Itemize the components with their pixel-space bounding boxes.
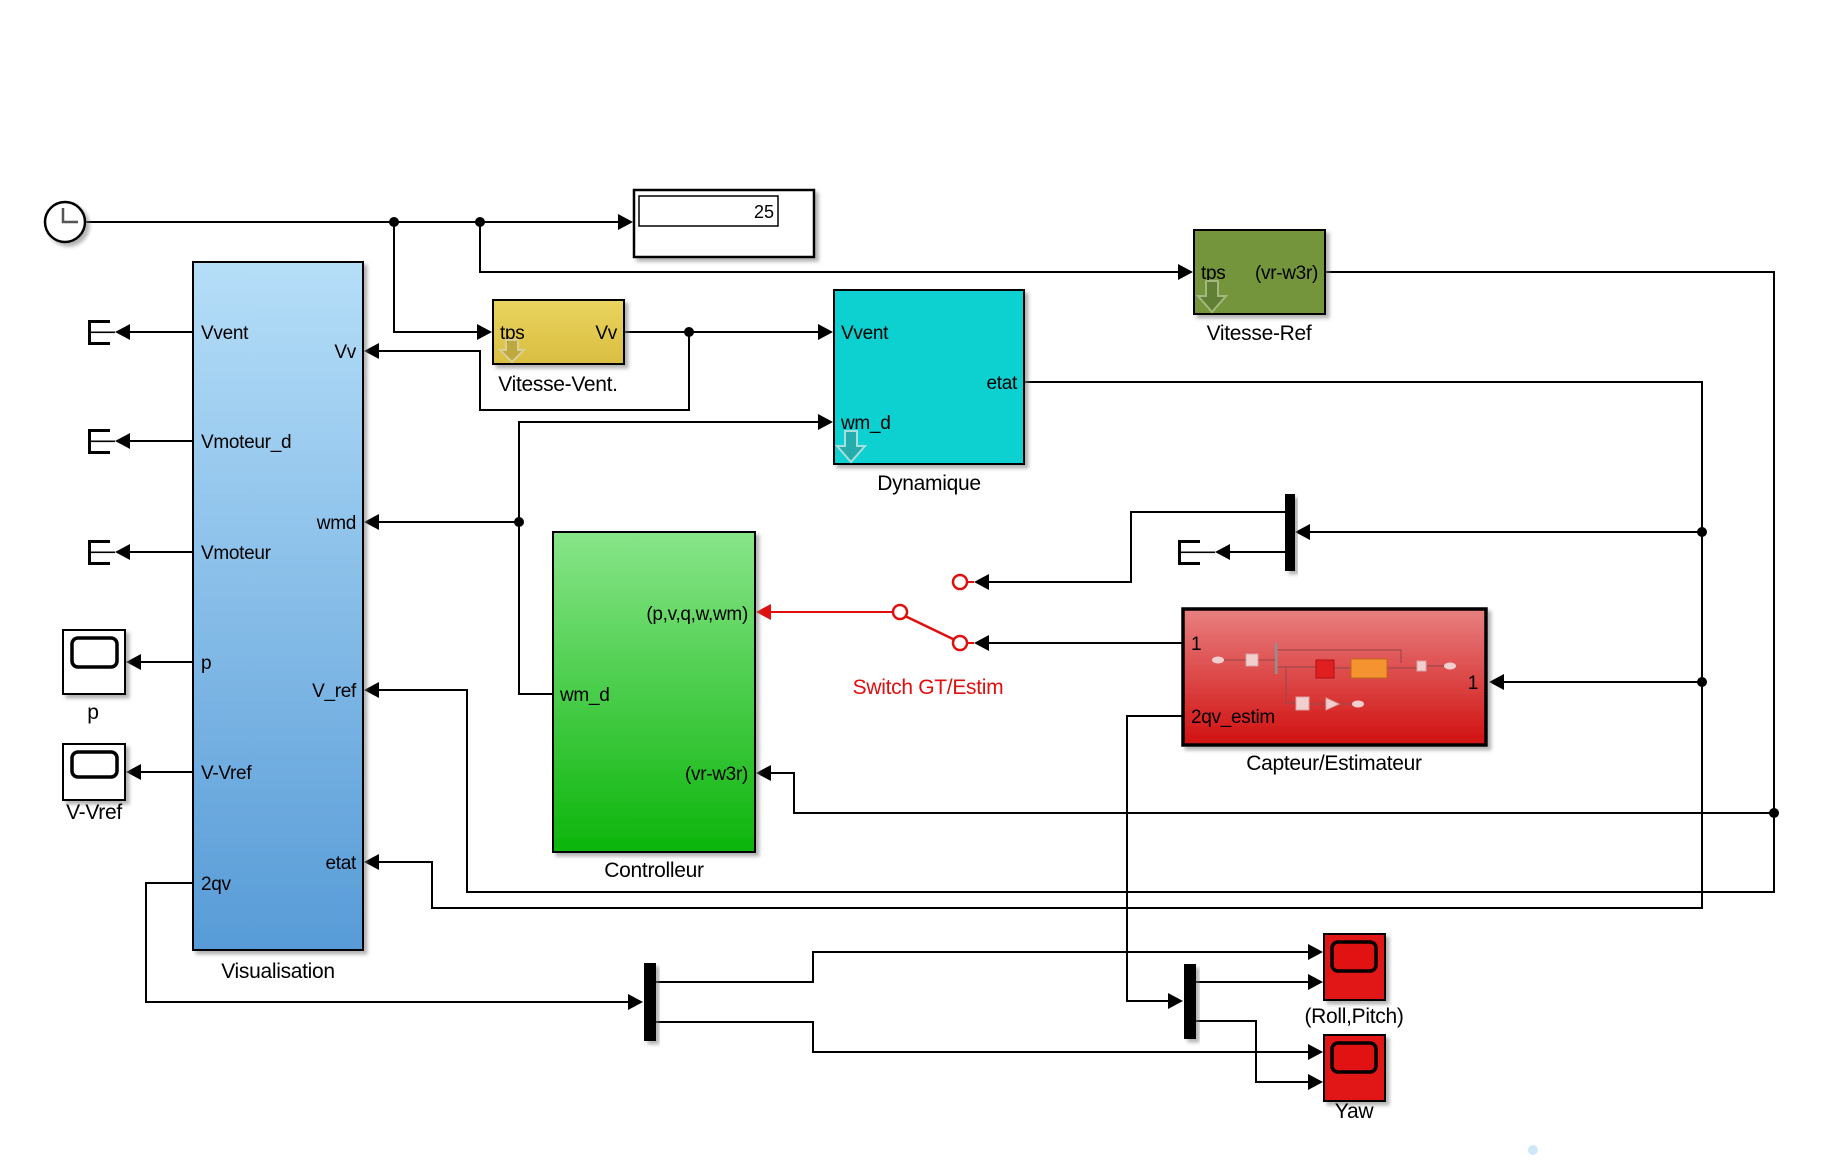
- wire Vitesse-Ref output to Visualisation V_ref: [378, 272, 1774, 892]
- node junction Vv: [684, 327, 694, 337]
- arrow into scope V-Vref: [126, 764, 141, 780]
- svg-text:2qv: 2qv: [201, 874, 232, 895]
- svg-text:V-Vref: V-Vref: [201, 763, 252, 784]
- wire demux2 out1 to RollPitch in2: [1196, 981, 1309, 983]
- display block value 25: [634, 190, 814, 257]
- svg-text:p: p: [87, 701, 98, 724]
- svg-text:etat: etat: [326, 853, 358, 874]
- arrow into Vitesse-Ref tps: [1178, 264, 1193, 280]
- arrow into Capteur input 1: [1489, 674, 1504, 690]
- svg-text:wmd: wmd: [316, 513, 356, 534]
- node junction clock-vent: [389, 217, 399, 227]
- arrow into Vitesse-Vent tps: [477, 324, 492, 340]
- svg-text:1: 1: [1191, 634, 1201, 655]
- wire Capteur out 1 to switch lower contact: [988, 642, 1183, 644]
- wire demux upper out2 to terminator: [1229, 551, 1285, 553]
- arrow into Visualisation V_ref: [364, 682, 379, 698]
- arrow into scope p: [126, 654, 141, 670]
- svg-text:(p,v,q,w,wm): (p,v,q,w,wm): [646, 604, 748, 625]
- subsystem Dynamique: [834, 290, 1024, 495]
- terminator1: [88, 320, 115, 345]
- svg-text:Vv: Vv: [334, 342, 356, 363]
- wire Visualisation Vmoteur to terminator3: [130, 551, 193, 553]
- wire demux2 out2 to Yaw in2: [1196, 1021, 1309, 1082]
- arrow into demux1: [628, 994, 643, 1010]
- svg-text:Vvent: Vvent: [201, 323, 249, 344]
- subsystem Vitesse-Vent: [493, 300, 624, 396]
- arrow into Visualisation wmd: [364, 514, 379, 530]
- arrow into demux2: [1168, 993, 1183, 1009]
- arrow into terminator upper: [1215, 544, 1230, 560]
- arrow into Yaw in1: [1308, 1044, 1323, 1060]
- wire Capteur 2qv_estim out to demux2: [1127, 716, 1183, 1001]
- wire demux upper out1 to switch upper contact: [988, 512, 1285, 582]
- svg-text:Vvent: Vvent: [841, 323, 889, 344]
- arrow into Visualisation Vv: [364, 343, 379, 359]
- subsystem Visualisation: [193, 262, 363, 983]
- node junction etat-demux: [1697, 527, 1707, 537]
- wire Visualisation p to scope p: [140, 661, 193, 663]
- svg-text:Vmoteur_d: Vmoteur_d: [201, 432, 291, 453]
- svg-text:etat: etat: [987, 373, 1019, 394]
- svg-text:p: p: [201, 653, 211, 674]
- wire demux1 out2 to Yaw in1: [656, 1022, 1309, 1052]
- subsystem Vitesse-Ref: [1194, 230, 1325, 345]
- wire clock to display: [85, 221, 618, 223]
- wire Visualisation 2qv out to demux1: [146, 883, 630, 1002]
- arrow into Dynamique Vvent: [818, 324, 833, 340]
- arrow into Yaw in2: [1308, 1074, 1323, 1090]
- arrow into terminator2: [115, 433, 130, 449]
- terminator2: [88, 429, 115, 454]
- svg-text:Vitesse-Ref: Vitesse-Ref: [1207, 322, 1312, 345]
- arrow into Dynamique wm_d: [818, 414, 833, 430]
- node junction vrw3r: [1769, 808, 1779, 818]
- svg-text:V-Vref: V-Vref: [66, 801, 122, 824]
- wire Visualisation Vmoteur_d to terminator2: [130, 440, 193, 442]
- wire Dynamique etat to Visualisation etat: [378, 382, 1702, 908]
- svg-text:Vitesse-Vent.: Vitesse-Vent.: [498, 373, 617, 396]
- wire branch Vv to Visualisation Vv: [378, 332, 689, 410]
- svg-text:Vmoteur: Vmoteur: [201, 543, 272, 564]
- arrow into terminator1: [115, 324, 130, 340]
- arrow into terminator3: [115, 544, 130, 560]
- svg-text:Visualisation: Visualisation: [221, 960, 335, 983]
- clock block: [45, 202, 85, 242]
- arrow red into Controlleur pvqwwm: [756, 604, 771, 620]
- arrow into Controlleur vr-w3r: [756, 765, 771, 781]
- svg-text:(Roll,Pitch): (Roll,Pitch): [1304, 1005, 1403, 1028]
- svg-text:Yaw: Yaw: [1335, 1100, 1375, 1123]
- svg-text:25: 25: [754, 202, 774, 222]
- node junction etat-capteur: [1697, 677, 1707, 687]
- demux upper: [1285, 494, 1295, 571]
- arrow into RollPitch in2: [1308, 974, 1323, 990]
- Capteur mini diagram: [1223, 650, 1445, 704]
- scope V-Vref: [63, 744, 125, 824]
- terminator upper: [1178, 540, 1215, 565]
- wire branch to Controlleur (vr-w3r): [771, 773, 1774, 813]
- wire branch clock to Vitesse-Ref tps: [480, 222, 1179, 272]
- svg-text:(vr-w3r): (vr-w3r): [685, 764, 748, 785]
- subsystem Controlleur: [553, 532, 755, 882]
- demux1: [644, 963, 656, 1041]
- wire branch etat to Capteur input 1: [1503, 681, 1702, 683]
- svg-text:Vv: Vv: [595, 323, 617, 344]
- svg-text:Switch GT/Estim: Switch GT/Estim: [853, 676, 1004, 699]
- wire Visualisation Vvent to terminator1: [130, 331, 193, 333]
- node junction wmd: [514, 517, 524, 527]
- arrow into Visualisation etat: [364, 854, 379, 870]
- wire branch wm_d to Visualisation wmd: [378, 521, 519, 523]
- subsystem Capteur/Estimateur: [1183, 609, 1486, 775]
- wire demux1 out1 to RollPitch in1: [656, 952, 1309, 982]
- svg-text:V_ref: V_ref: [312, 681, 357, 702]
- demux2: [1184, 964, 1196, 1039]
- node junction clock-ref: [475, 217, 485, 227]
- wire Vitesse-Vent Vv to Dynamique Vvent: [624, 331, 819, 333]
- arrow into demux upper: [1295, 524, 1310, 540]
- arrow into display: [618, 214, 633, 230]
- arrow into switch upper contact: [974, 574, 989, 590]
- scope p: [63, 630, 125, 724]
- svg-text:2qv_estim: 2qv_estim: [1191, 707, 1275, 728]
- terminator3: [88, 540, 115, 565]
- wire Controlleur wm_d out to Dynamique wm_d: [519, 422, 819, 694]
- svg-text:(vr-w3r): (vr-w3r): [1255, 263, 1318, 284]
- wire Visualisation V-Vref to scope V-Vref: [140, 771, 193, 773]
- svg-text:wm_d: wm_d: [559, 685, 609, 706]
- svg-text:Dynamique: Dynamique: [877, 472, 981, 495]
- wire branch clock to Vitesse-Vent tps: [394, 222, 479, 332]
- wire branch etat to demux upper: [1309, 531, 1702, 533]
- svg-text:Capteur/Estimateur: Capteur/Estimateur: [1246, 752, 1422, 775]
- arrow into RollPitch in1: [1308, 944, 1323, 960]
- svg-text:1: 1: [1468, 673, 1478, 694]
- switch Switch GT/Estim: [771, 575, 1003, 699]
- arrow into switch lower contact: [974, 635, 989, 651]
- svg-text:Controlleur: Controlleur: [604, 859, 704, 882]
- scope Yaw: [1324, 1035, 1385, 1123]
- artifact dot: [1528, 1145, 1538, 1155]
- scope RollPitch: [1304, 934, 1403, 1028]
